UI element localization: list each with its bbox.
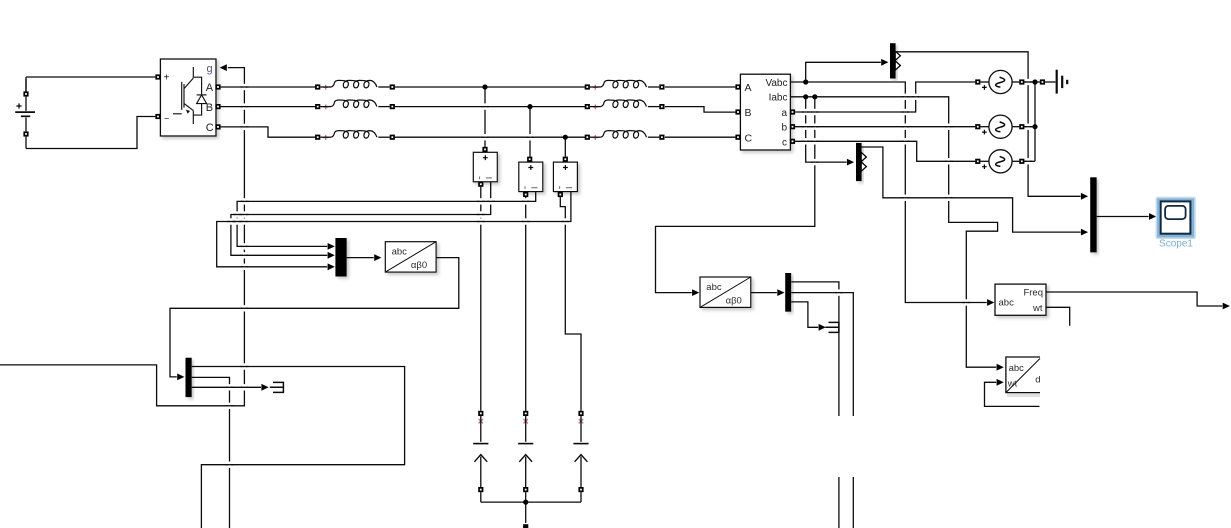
svg-text:abc: abc <box>999 298 1015 309</box>
DC voltage source E1 <box>15 77 155 149</box>
breaker phase B <box>518 411 533 492</box>
wire wt output (clipped) <box>1046 307 1070 326</box>
bus creator 1 <box>890 43 900 78</box>
terminator T1 <box>270 382 284 392</box>
wire source1 to neutral <box>1024 81 1035 83</box>
node C junction <box>563 135 568 140</box>
wire Vabc to PLL <box>790 82 994 306</box>
node Vabc junction <box>803 79 808 84</box>
voltage measurement VM1 <box>473 147 497 187</box>
wire B to VM2 <box>529 109 531 157</box>
wire a to source1 <box>795 82 975 112</box>
svg-text:C: C <box>206 122 214 134</box>
wire ab0#1 output loop <box>170 258 459 381</box>
inductor L2b <box>585 100 665 109</box>
wire VM3 output v <box>217 192 571 270</box>
transform block abc-&#945;&#946;0 #2 <box>700 277 751 307</box>
port bottom stub <box>523 524 528 528</box>
node A junction <box>482 84 487 89</box>
wire Iabc to ab0#2 <box>656 99 815 296</box>
svg-text:abc: abc <box>392 247 408 258</box>
wire Freq output <box>1046 292 1230 309</box>
AC voltage source Vb <box>975 115 1024 138</box>
wire demux1 out1 <box>192 367 405 528</box>
wire phase A <box>221 86 736 88</box>
svg-text:b: b <box>781 123 787 134</box>
demux Demux2 <box>785 273 791 312</box>
terminator T2 <box>825 322 839 332</box>
wire mux to Scope1 <box>1097 213 1157 220</box>
svg-text:a: a <box>781 108 787 119</box>
wire demux1 out3 <box>192 384 269 391</box>
node bus junction <box>523 500 528 505</box>
wire demux2 out2 <box>791 293 853 528</box>
wire crossing gaps <box>226 79 1033 468</box>
svg-text:+: + <box>164 73 170 84</box>
wire neutral to ground <box>1035 81 1055 83</box>
inductor L2a <box>585 80 665 89</box>
demux Demux1 <box>186 358 192 397</box>
node neutral junction 1 <box>1032 79 1037 84</box>
inductor L1b <box>315 100 395 109</box>
wire neutral bus <box>1034 82 1036 161</box>
three-phase V-I measurement block <box>735 74 795 150</box>
wire VM3- to breaker3 <box>560 197 581 411</box>
wire A to VM1 <box>484 89 486 147</box>
wire demux2 out1 <box>791 282 839 528</box>
wire VM1 output v <box>231 182 491 259</box>
node Iabc junction 2 <box>812 94 817 99</box>
wire c to source3 <box>795 141 975 161</box>
wire gate feedback g <box>0 64 244 406</box>
scope block Scope1 (selected) <box>1156 197 1196 250</box>
svg-text:−: − <box>164 114 169 124</box>
PLL block (abc - Freq, wt) <box>995 284 1046 315</box>
inductor L2c <box>585 131 665 140</box>
node Iabc junction 1 <box>803 94 808 99</box>
wire mux3 to abc-ab0 <box>347 254 382 261</box>
AC voltage source Vc <box>975 150 1024 173</box>
wire phase B <box>221 107 736 113</box>
svg-text:A: A <box>206 82 214 94</box>
svg-text:abc: abc <box>1009 363 1025 374</box>
wire ab0#2 to demux2 <box>751 289 785 296</box>
svg-text:c: c <box>782 138 787 149</box>
wire Vabc to bus creator1 <box>806 59 889 82</box>
wire VM2- to breaker2 <box>525 197 527 411</box>
svg-text:Scope1: Scope1 <box>1159 238 1193 249</box>
svg-text:Vabc: Vabc <box>765 78 787 89</box>
mux to scope <box>1090 177 1097 252</box>
bus creator 2 <box>856 143 866 181</box>
universal bridge (IGBT/diode inverter) <box>155 59 220 136</box>
svg-text:Freq: Freq <box>1023 287 1043 298</box>
svg-text:abc: abc <box>706 282 722 293</box>
svg-text:C: C <box>745 132 753 144</box>
wire source2 to neutral <box>1024 126 1035 128</box>
wire wt feedback (clipped) <box>985 379 1040 407</box>
wire C to VM3 <box>564 139 566 156</box>
wire phase C <box>221 127 736 137</box>
svg-text:αβ0: αβ0 <box>726 295 742 306</box>
voltage measurement VM2 <box>519 157 543 197</box>
svg-text:B: B <box>745 107 752 119</box>
svg-text:A: A <box>745 82 752 94</box>
wire demux1 out2 <box>192 377 230 528</box>
inductor L1c <box>315 131 395 140</box>
inductor L1a <box>315 80 395 89</box>
svg-text:g: g <box>207 63 213 75</box>
voltage measurement VM3 <box>553 157 577 197</box>
node neutral junction 2 <box>1032 124 1037 129</box>
breaker phase C <box>573 411 588 492</box>
ground symbol <box>1040 70 1067 94</box>
wire breaker common bus <box>481 492 581 523</box>
wire source3 to neutral <box>1024 160 1035 162</box>
wire VM1- to breaker1 <box>480 187 482 411</box>
svg-text:wt: wt <box>1007 379 1018 390</box>
wire VM2 output v <box>237 192 536 250</box>
wire bus creator2 out to scope mux <box>862 147 1089 236</box>
svg-text:Iabc: Iabc <box>769 93 788 104</box>
node B junction <box>527 104 532 109</box>
wire battery- to bridge- <box>26 117 155 149</box>
wire Iabc to dq0 <box>790 97 1003 371</box>
transform block abc,wt-dq0 (clipped) <box>1006 357 1041 397</box>
svg-text:αβ0: αβ0 <box>411 260 427 271</box>
wire bus creator1 out to scope mux <box>896 52 1089 200</box>
breaker phase A <box>473 411 488 492</box>
wire demux2 out3 <box>791 302 826 331</box>
mux Mux1 (3-in) <box>335 238 346 277</box>
transform block abc-&#945;&#946;0 #1 <box>385 242 436 272</box>
AC voltage source Va <box>975 70 1024 93</box>
wire Iabc to bus creator2 <box>806 99 854 166</box>
wire b to source2 <box>795 126 975 128</box>
svg-text:d: d <box>1035 374 1040 385</box>
svg-text:wt: wt <box>1032 303 1043 314</box>
